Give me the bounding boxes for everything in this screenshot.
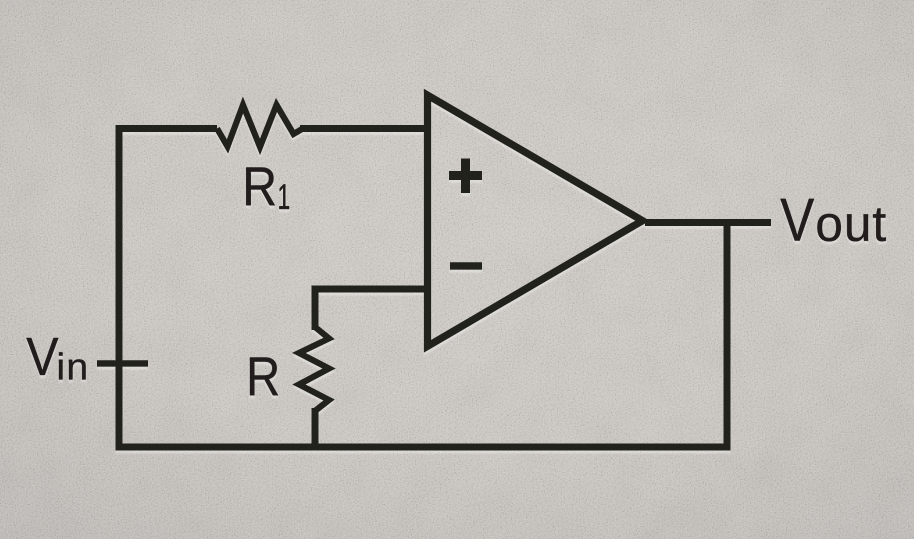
- node label Vin: [27, 338, 59, 375]
- wire: left vertical rail (Vin branch): [116, 125, 123, 451]
- wire: op-amp inverting input: [312, 286, 431, 293]
- wire: top rail from left corner to R1: [116, 125, 218, 132]
- wire: R1 to op-amp noninverting input: [300, 125, 430, 132]
- op-amp + input symbol: [449, 159, 482, 194]
- op-amp U1 triangle: [428, 95, 643, 346]
- resistor R: [299, 327, 329, 411]
- Vin terminal tick: [97, 360, 148, 367]
- wire: output from op-amp apex: [645, 219, 771, 226]
- wire: bottom rail: [119, 444, 731, 451]
- node label Vout: [781, 199, 815, 241]
- wire: R bottom lead to bottom rail: [312, 408, 319, 447]
- op-amp - input symbol: [450, 262, 482, 270]
- wire: feedback vertical drop: [724, 223, 731, 448]
- wire: R top lead: [312, 286, 319, 331]
- value label R1: [246, 168, 275, 206]
- resistor R1: [217, 105, 303, 147]
- value label R: [250, 358, 278, 396]
